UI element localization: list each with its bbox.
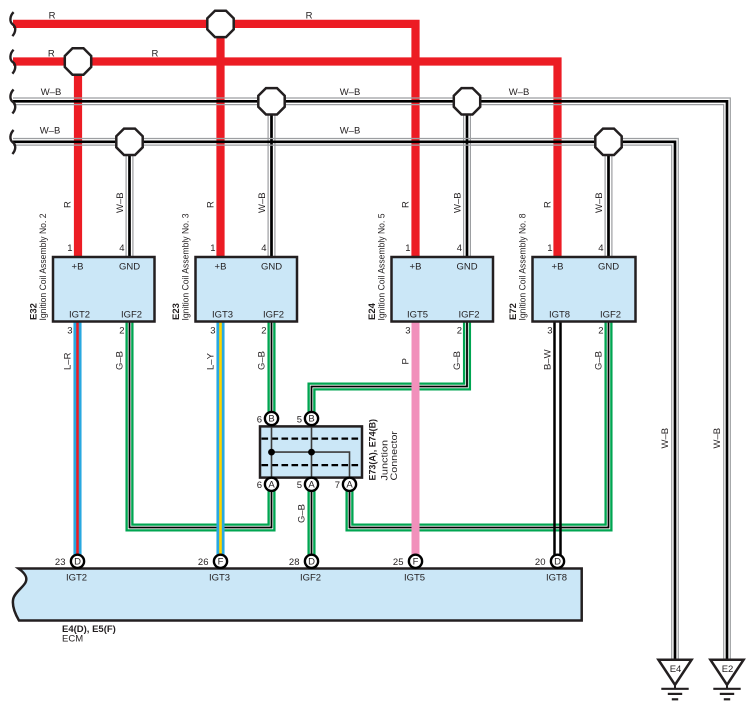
svg-text:+B: +B: [410, 262, 422, 273]
svg-text:L–R: L–R: [63, 352, 74, 370]
svg-text:20: 20: [535, 557, 546, 568]
pin circle ECM pin 20 (IGT8): [535, 555, 564, 569]
svg-text:6: 6: [257, 480, 262, 491]
junction internal dashed bus 2: [262, 464, 361, 466]
svg-text:G–B: G–B: [594, 351, 605, 370]
pin circle ECM pin 26 (IGT3): [198, 555, 227, 569]
pin circle junction 7A: [335, 478, 356, 491]
svg-text:L–Y: L–Y: [206, 352, 217, 370]
junction connector octagon on W-B rail 1 to coil2 GND: [258, 88, 284, 114]
svg-text:IGF2: IGF2: [121, 310, 142, 321]
svg-text:D: D: [308, 556, 315, 567]
break mark R feed 1: [10, 12, 15, 36]
svg-text:2: 2: [598, 326, 603, 337]
svg-text:IGT5: IGT5: [407, 310, 428, 321]
svg-text:G–B: G–B: [115, 351, 126, 370]
svg-text:Ignition Coil Assembly No. 3: Ignition Coil Assembly No. 3: [181, 214, 192, 321]
svg-text:R: R: [48, 48, 55, 59]
junction connector octagon on R feed 2 to coil1: [65, 48, 91, 74]
svg-text:3: 3: [547, 326, 552, 337]
svg-text:2: 2: [457, 326, 462, 337]
svg-text:23: 23: [55, 557, 66, 568]
svg-text:1: 1: [67, 243, 72, 254]
wire R feed 2: from left break, octagon joint, corner down to coil4 +B pin 1: [13, 62, 558, 259]
junction internal wire pin 6B/6A: [271, 427, 273, 478]
svg-text:IGF2: IGF2: [300, 573, 321, 584]
junction internal wire pin 5B/5A: [311, 427, 313, 478]
svg-text:R: R: [306, 11, 313, 22]
svg-text:IGT2: IGT2: [66, 573, 87, 584]
wire L-R coil1 IGT2 to ECM pin 23: [73, 320, 81, 555]
junction internal bus with corner to pin 7A: [272, 452, 350, 477]
ignition coil assembly box E32: [53, 257, 155, 322]
svg-text:B: B: [308, 414, 314, 425]
svg-text:1: 1: [405, 243, 410, 254]
svg-text:G–B: G–B: [452, 351, 463, 370]
svg-text:Ignition Coil Assembly No. 8: Ignition Coil Assembly No. 8: [518, 214, 529, 321]
pin circle ECM pin 28 (IGF2): [289, 555, 318, 569]
svg-text:ECM: ECM: [62, 634, 83, 645]
svg-text:W–B: W–B: [594, 192, 605, 213]
svg-text:4: 4: [598, 243, 603, 254]
wire W-B ground rail 2: left break across to right, down to ground E4: [13, 139, 678, 660]
svg-text:GND: GND: [261, 262, 282, 273]
svg-text:GND: GND: [119, 262, 140, 273]
junction connector octagon on W-B rail 1 to coil3 GND: [454, 88, 480, 114]
ignition coil assembly box E24: [392, 257, 494, 322]
ECM name label: [62, 624, 116, 645]
junction connector box E73(A), E74(B): [260, 426, 362, 477]
wire junction A2 to ECM IGF2, pin 5A to pin 28 (G-B): [307, 489, 315, 555]
pin circle ECM pin 23 (IGT2): [55, 555, 84, 569]
junction connector octagon on W-B rail 2 to coil4 GND: [595, 129, 621, 155]
svg-text:IGF2: IGF2: [263, 310, 284, 321]
svg-text:D: D: [74, 556, 81, 567]
svg-text:4: 4: [457, 243, 462, 254]
svg-text:IGT5: IGT5: [404, 573, 425, 584]
svg-text:W–B: W–B: [115, 192, 126, 213]
svg-text:4: 4: [261, 243, 266, 254]
wire R top feed 1: from left break, octagon joint, corner down to coil3 +B pin 1: [13, 24, 416, 258]
pin circle junction 5B: [297, 412, 318, 425]
break mark W-B rail 2: [10, 130, 15, 154]
wire L-Y coil2 IGT3 to ECM pin 26: [216, 320, 224, 555]
svg-text:P: P: [401, 358, 412, 364]
svg-text:+B: +B: [72, 262, 84, 273]
junction connector name label: [368, 419, 401, 481]
wire P coil3 IGT5 to ECM pin 25: [412, 320, 420, 555]
junction internal dashed bus 1: [262, 438, 361, 440]
svg-text:F: F: [413, 556, 419, 567]
svg-text:5: 5: [297, 414, 302, 425]
svg-text:G–B: G–B: [297, 504, 308, 523]
svg-text:3: 3: [210, 326, 215, 337]
svg-text:W–B: W–B: [340, 126, 361, 137]
svg-text:D: D: [554, 556, 561, 567]
svg-text:2: 2: [119, 326, 124, 337]
svg-text:A: A: [346, 479, 353, 490]
svg-text:W–B: W–B: [509, 87, 530, 98]
svg-text:5: 5: [297, 480, 302, 491]
wire coil2 GND drop from octagon (W-B): [268, 101, 276, 258]
junction solder dot node 1: [268, 449, 275, 456]
svg-text:E73(A), E74(B): E73(A), E74(B): [368, 419, 379, 481]
svg-text:Connector: Connector: [389, 431, 400, 481]
junction connector octagon on W-B rail 2 to coil1 GND: [116, 129, 142, 155]
svg-text:1: 1: [210, 243, 215, 254]
wire B-W coil4 IGT8 to ECM pin 20: [555, 320, 561, 555]
pin circle ECM pin 25 (IGT5): [393, 555, 422, 569]
svg-text:GND: GND: [598, 262, 619, 273]
svg-text:26: 26: [198, 557, 209, 568]
wire coil2 IGF2 to junction B1, pin 2 to pin 6B (G-B): [267, 320, 275, 413]
break mark W-B rail 1: [10, 90, 15, 114]
wire coil3 GND drop from octagon (W-B): [463, 101, 471, 258]
svg-text:W–B: W–B: [257, 192, 268, 213]
wire W-B ground rail 1: left break across to right, down to ground E2: [13, 98, 730, 660]
svg-text:R: R: [63, 201, 74, 208]
junction connector octagon on R feed 1 to coil2: [207, 11, 233, 37]
svg-text:E2: E2: [722, 664, 734, 675]
wire R branch from octagon to coil1 +B pin 1: [74, 62, 82, 259]
svg-text:3: 3: [67, 326, 72, 337]
break mark R feed 2: [10, 50, 15, 74]
svg-text:F: F: [218, 556, 224, 567]
svg-text:7: 7: [335, 480, 340, 491]
svg-text:W–B: W–B: [41, 87, 62, 98]
wire coil1 IGF2 to junction A1, pin 2 to pin 6A (G-B): [130, 320, 272, 528]
svg-text:IGF2: IGF2: [600, 310, 621, 321]
pin circle junction 6B: [257, 412, 278, 425]
pin circle junction 5A: [297, 478, 318, 491]
svg-text:R: R: [401, 201, 412, 208]
svg-text:IGT3: IGT3: [212, 310, 233, 321]
svg-text:A: A: [268, 479, 275, 490]
svg-text:G–B: G–B: [257, 351, 268, 370]
svg-text:R: R: [151, 48, 158, 59]
svg-text:R: R: [206, 201, 217, 208]
svg-text:GND: GND: [456, 262, 477, 273]
svg-text:B: B: [268, 414, 274, 425]
ground E2: [710, 660, 743, 700]
svg-text:+B: +B: [552, 262, 564, 273]
ignition coil assembly box E72: [533, 257, 636, 322]
svg-text:R: R: [49, 11, 56, 22]
svg-text:W–B: W–B: [340, 87, 361, 98]
svg-text:2: 2: [261, 326, 266, 337]
wire coil4 IGF2 to junction A3, pin 2 to pin 7A (G-B): [350, 320, 609, 528]
svg-text:IGT8: IGT8: [546, 573, 567, 584]
svg-text:1: 1: [547, 243, 552, 254]
svg-text:4: 4: [119, 243, 124, 254]
svg-text:W–B: W–B: [660, 428, 671, 449]
wire coil3 IGF2 to junction B2, pin 2 to pin 5B (G-B): [312, 320, 468, 413]
svg-text:IGF2: IGF2: [458, 310, 479, 321]
svg-text:3: 3: [405, 326, 410, 337]
svg-text:A: A: [308, 479, 315, 490]
svg-text:6: 6: [257, 414, 262, 425]
svg-text:W–B: W–B: [453, 192, 464, 213]
svg-text:IGT3: IGT3: [209, 573, 230, 584]
wire R branch from octagon to coil2 +B pin 1: [216, 24, 224, 258]
ECM box E4(D), E5(F): [13, 569, 582, 621]
svg-text:Ignition Coil Assembly No. 5: Ignition Coil Assembly No. 5: [377, 214, 388, 321]
svg-text:W–B: W–B: [40, 126, 61, 137]
junction solder dot node 2: [308, 449, 315, 456]
ground E4: [658, 660, 691, 700]
svg-text:B–W: B–W: [543, 349, 554, 370]
svg-text:25: 25: [393, 557, 404, 568]
svg-text:R: R: [543, 201, 554, 208]
svg-text:W–B: W–B: [712, 428, 723, 449]
wire coil1 GND drop from octagon (W-B): [126, 142, 134, 258]
svg-text:IGT8: IGT8: [549, 310, 570, 321]
pin circle junction 6A: [257, 478, 278, 491]
svg-text:28: 28: [289, 557, 300, 568]
svg-text:IGT2: IGT2: [69, 310, 90, 321]
ignition coil assembly box E23: [196, 257, 298, 322]
svg-text:+B: +B: [215, 262, 227, 273]
svg-text:Ignition Coil Assembly No. 2: Ignition Coil Assembly No. 2: [38, 214, 49, 321]
svg-text:E4: E4: [670, 664, 682, 675]
wire coil4 GND drop from octagon (W-B): [605, 142, 613, 258]
